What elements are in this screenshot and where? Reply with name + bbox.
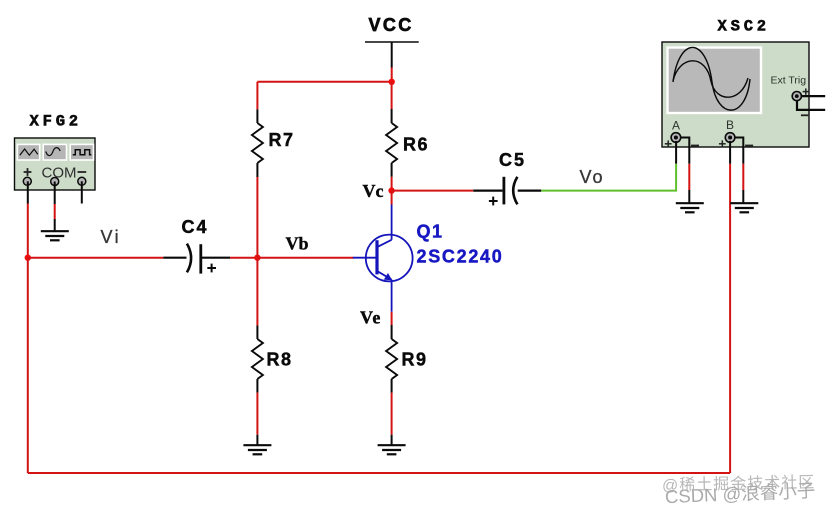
square wave icon <box>73 150 92 155</box>
wire Vc node to collector (red) <box>391 191 393 205</box>
wire scope B- to ground (black) <box>742 190 744 203</box>
transistor Q1 <box>353 205 413 312</box>
wire R8 ground lead (black) <box>256 435 258 445</box>
resistor R9 <box>386 325 397 393</box>
node VCC junction <box>389 79 395 85</box>
function generator XFG2 body <box>15 138 96 190</box>
channel B minus stub <box>735 138 744 150</box>
wire C4 to base node (red) <box>230 257 257 259</box>
wire scope B- lead (black) <box>742 149 744 164</box>
wire scope A+ lead (black) <box>675 141 677 164</box>
resistor R7 <box>252 109 263 177</box>
svg-text:C5: C5 <box>499 150 526 170</box>
wire scope B+ down to bottom rail (red) <box>729 164 731 473</box>
XFG2 terminal COM <box>51 178 59 186</box>
wire bottom rail (red) <box>28 472 730 474</box>
ground under R8 <box>243 445 271 454</box>
svg-text:Vc: Vc <box>363 181 384 201</box>
svg-text:VCC: VCC <box>369 15 414 35</box>
XFG2 terminal + <box>23 177 31 185</box>
scope trace large sine <box>673 48 750 111</box>
svg-text:C4: C4 <box>182 217 209 237</box>
node input junction <box>25 255 31 261</box>
wire R6 to Vc node (red) <box>391 177 393 191</box>
wire XFG2 minus stub (black) <box>81 181 83 203</box>
wire R9 ground lead (black) <box>391 435 393 445</box>
node Vc junction <box>388 187 394 193</box>
svg-text:R7: R7 <box>269 130 295 150</box>
wire scope A- lead (black) <box>688 149 690 164</box>
svg-text:Ve: Ve <box>360 308 381 328</box>
sine wave icon <box>46 148 60 156</box>
channel A minus stub <box>681 138 690 150</box>
wire Vc node to C5 (red) <box>392 190 474 192</box>
wire XFG2 COM (red) <box>54 204 56 219</box>
wire top rail (red) <box>257 81 391 83</box>
channel B terminal <box>725 133 735 143</box>
svg-text:R8: R8 <box>267 350 293 370</box>
wire R9 to ground (red) <box>391 393 393 435</box>
wire scope B+ lead (black) <box>729 141 731 164</box>
wire VCC node to R6 (red) <box>391 82 393 109</box>
svg-text:XFG2: XFG2 <box>30 113 82 131</box>
Ext Trig pin wires <box>801 95 825 97</box>
wire R7 to Vb node (red) <box>256 177 258 258</box>
wire input node down left side (red) <box>27 258 29 473</box>
triangle wave icon <box>20 149 38 155</box>
wire scope A- (red) <box>688 164 690 190</box>
oscilloscope XSC2 body <box>662 42 825 149</box>
wire XFG2 plus lead (black) <box>27 181 29 203</box>
svg-text:Q1: Q1 <box>417 222 444 242</box>
channel A terminal <box>671 133 681 143</box>
wire emitter to R9 (red) <box>391 312 393 325</box>
wire C5 to scope A (green) <box>541 164 676 191</box>
wire VCC lead (black) <box>391 42 393 68</box>
XFG2 terminal - <box>78 177 86 185</box>
ground under R9 <box>378 445 406 454</box>
resistor R8 <box>252 326 263 393</box>
wire R8 to ground (red) <box>256 393 258 435</box>
ground under COM <box>41 231 69 240</box>
svg-text:B: B <box>726 118 734 132</box>
svg-text:XSC2: XSC2 <box>718 18 770 36</box>
wire VCC to rail (red) <box>391 68 393 83</box>
svg-text:Vo: Vo <box>580 167 605 187</box>
plus minus COM labels <box>24 168 32 176</box>
svg-text:R6: R6 <box>403 135 429 155</box>
ground under scope A <box>676 203 704 212</box>
ground under scope B <box>730 203 758 212</box>
wire base node to Q1 base (red) <box>257 257 353 259</box>
wire XFG2 COM to ground (black) <box>54 219 56 231</box>
svg-text:2SC2240: 2SC2240 <box>417 247 504 267</box>
capacitor C5 <box>473 177 541 206</box>
wire XFG2 COM lead (black) <box>54 182 56 205</box>
svg-text:Vi: Vi <box>101 227 121 247</box>
node Vb junction <box>254 255 260 261</box>
VCC power symbol <box>365 41 419 43</box>
svg-text:COM: COM <box>42 165 77 182</box>
svg-text:A: A <box>672 119 680 133</box>
scope trace small sine <box>673 61 748 97</box>
Ext Trig terminal <box>792 92 801 101</box>
resistor R6 <box>386 109 397 177</box>
capacitor C4 <box>163 244 230 274</box>
wire scope B- (red) <box>742 164 744 190</box>
svg-text:R9: R9 <box>402 350 428 370</box>
svg-text:Vb: Vb <box>286 234 309 254</box>
wire XFG2 plus to input node (red) <box>27 204 29 259</box>
wire input node to C4 (red) <box>28 257 164 259</box>
svg-text:Ext Trig: Ext Trig <box>771 75 807 87</box>
wire rail corner down to R7 (red) <box>256 82 258 110</box>
wire Vb node down to R8 (red) <box>256 258 258 326</box>
wire scope A- to ground (black) <box>688 190 690 203</box>
